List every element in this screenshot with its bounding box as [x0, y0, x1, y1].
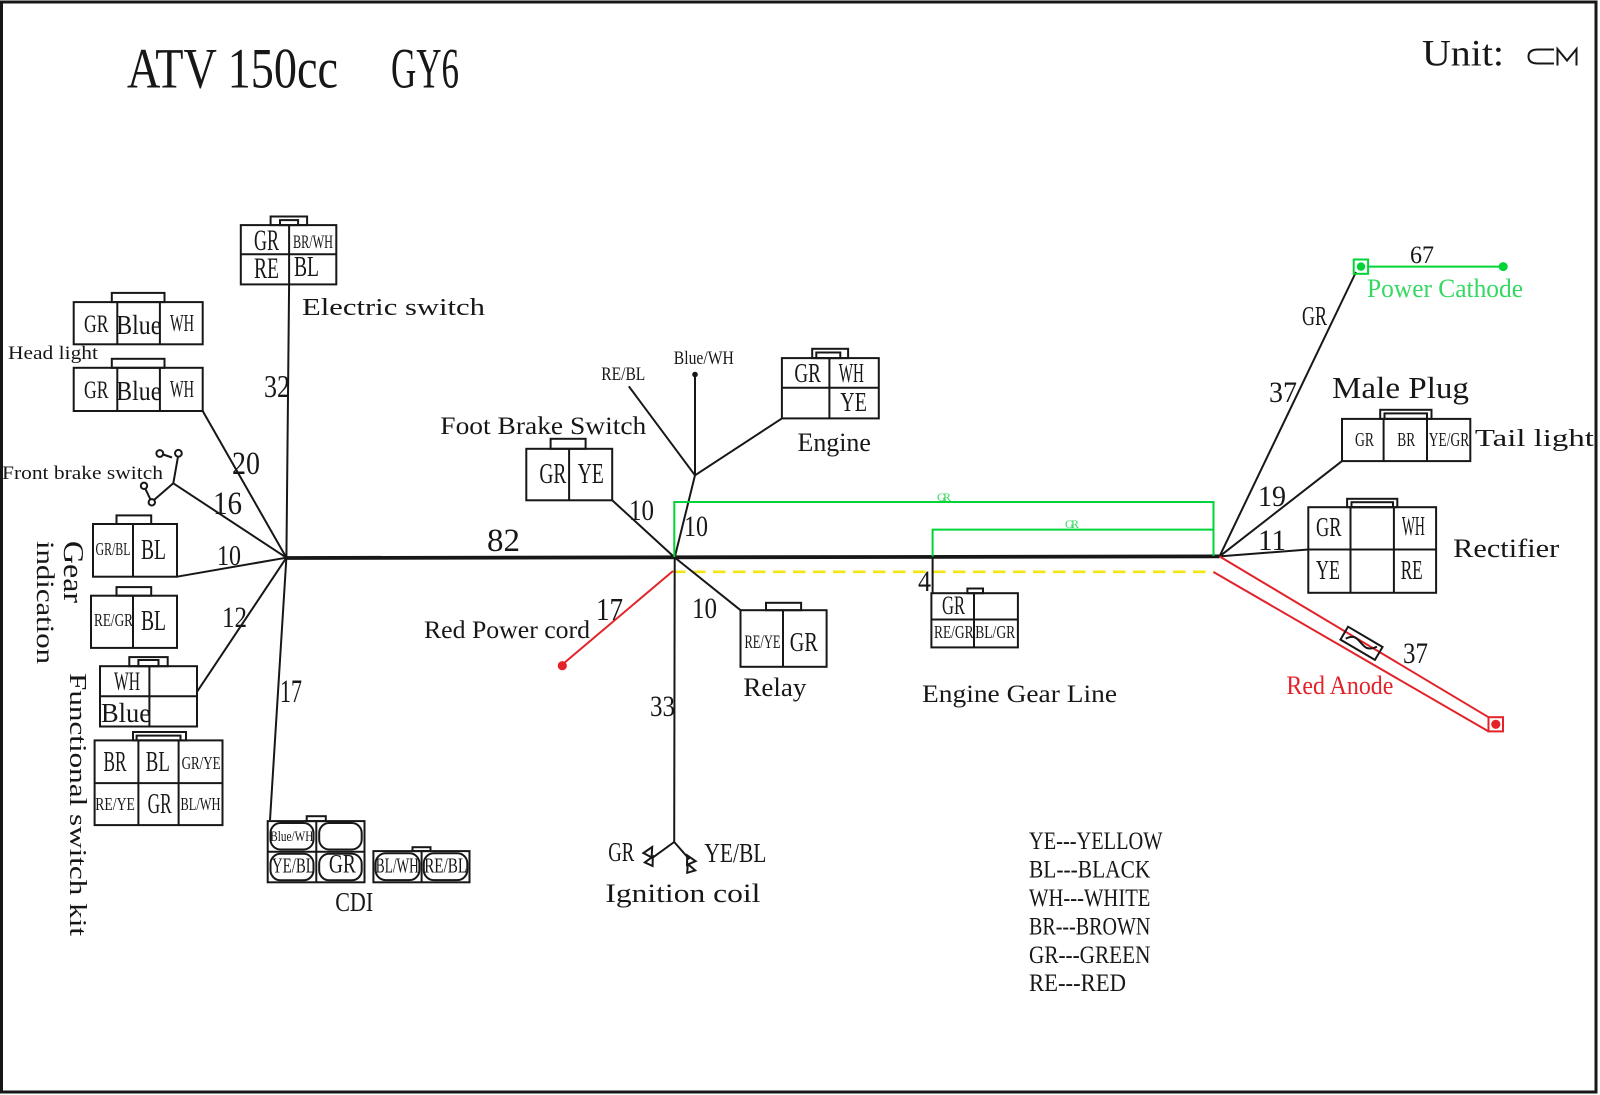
svg-text:Rectifier: Rectifier: [1453, 534, 1559, 563]
label Ignition coil: [605, 879, 760, 908]
svg-text:GR: GR: [1355, 429, 1374, 451]
svg-text:WH: WH: [114, 667, 140, 696]
svg-text:20: 20: [232, 446, 260, 482]
svg-text:RE/GR: RE/GR: [94, 610, 133, 630]
label 10: [692, 592, 717, 625]
svg-text:Red Power cord: Red Power cord: [424, 617, 591, 644]
svg-text:RE: RE: [1401, 555, 1423, 585]
green wire GR upper: [674, 502, 1213, 557]
svg-text:Electric switch: Electric switch: [302, 295, 485, 321]
legend RE---RED: [1029, 970, 1126, 997]
label 10: [217, 540, 241, 572]
label 32: [264, 368, 290, 404]
svg-text:YE---YELLOW: YE---YELLOW: [1029, 828, 1163, 855]
label Blue/WH: [674, 348, 734, 369]
svg-text:GR: GR: [790, 627, 818, 657]
svg-text:GR/BL: GR/BL: [96, 539, 131, 559]
svg-text:37: 37: [1269, 376, 1297, 409]
svg-text:YE/BL: YE/BL: [704, 838, 766, 868]
wire RE/BL branch: [629, 386, 695, 475]
label Electric switch: [302, 295, 485, 321]
label 17: [596, 591, 623, 627]
legend BR---BROWN: [1029, 913, 1150, 940]
svg-text:BL: BL: [141, 535, 166, 566]
wire 4 (trunk to engine gear line): [932, 558, 934, 594]
red power cord wire with end dot: [558, 571, 673, 670]
label GR (green, upper wire): [937, 490, 951, 504]
svg-text:17: 17: [280, 674, 302, 710]
label Red Power cord: [424, 617, 591, 644]
wire 12 (functional switch WH/Blue to left hub): [197, 558, 286, 692]
svg-text:GR/YE: GR/YE: [182, 753, 221, 773]
svg-text:37: 37: [1403, 637, 1428, 670]
svg-text:12: 12: [222, 601, 247, 634]
label Rectifier: [1453, 534, 1559, 563]
label 82: [487, 523, 520, 559]
svg-text:RE: RE: [254, 252, 279, 285]
svg-text:RE/BL: RE/BL: [601, 364, 645, 385]
connector: engine gear line (GR,RE/GR,BL/GR): [931, 589, 1018, 648]
svg-text:GR: GR: [148, 789, 172, 820]
wire 11 (right hub to rectifier): [1220, 550, 1309, 557]
svg-text:BL---BLACK: BL---BLACK: [1029, 857, 1150, 884]
svg-text:BL/WH: BL/WH: [181, 794, 221, 814]
svg-text:11: 11: [1258, 524, 1286, 557]
connector: head light lower (GR,Blue,WH): [74, 359, 203, 411]
ignition coil fork with arrow terminals: [643, 842, 695, 873]
svg-text:82: 82: [487, 523, 520, 559]
wire 10 (gear indication to left hub): [177, 558, 286, 577]
svg-text:Engine Gear Line: Engine Gear Line: [922, 681, 1117, 708]
fuse/breaker symbol on red anode wire: [1340, 627, 1382, 660]
svg-text:33: 33: [650, 690, 675, 723]
svg-text:ATV 150cc: ATV 150cc: [127, 38, 338, 101]
wire 10 (middle hub to relay): [675, 558, 741, 611]
svg-text:19: 19: [1258, 480, 1286, 513]
connector: relay (RE/YE,GR): [741, 603, 827, 667]
svg-text:RE/BL: RE/BL: [424, 854, 467, 878]
label Male Plug: [1332, 370, 1469, 405]
svg-text:10: 10: [692, 592, 717, 625]
label 67: [1410, 242, 1434, 269]
svg-text:WH: WH: [839, 358, 864, 388]
svg-text:GR: GR: [1316, 512, 1342, 542]
svg-text:GR: GR: [794, 358, 821, 388]
label GR: [608, 837, 634, 867]
svg-text:Ignition coil: Ignition coil: [605, 879, 760, 908]
svg-text:RE/YE: RE/YE: [95, 794, 135, 814]
svg-text:BR---BROWN: BR---BROWN: [1029, 913, 1150, 940]
svg-text:Front brake switch: Front brake switch: [2, 463, 164, 484]
svg-text:RE---RED: RE---RED: [1029, 970, 1126, 997]
connector: gear indication 1 (GR/BL,BL): [93, 515, 177, 576]
legend WH---WHITE: [1029, 885, 1150, 912]
label Relay: [743, 673, 806, 702]
connector: head light upper (GR,Blue,WH): [74, 293, 203, 344]
svg-text:Red Anode: Red Anode: [1286, 671, 1393, 700]
svg-text:WH: WH: [1402, 511, 1425, 541]
svg-text:Relay: Relay: [743, 673, 806, 702]
label 11: [1258, 524, 1286, 557]
svg-text:Blue: Blue: [101, 698, 151, 728]
svg-text:10: 10: [217, 540, 241, 572]
label Functional switch kit (rotated): [64, 673, 90, 936]
svg-text:4: 4: [918, 565, 931, 598]
label Foot Brake Switch: [440, 413, 647, 440]
svg-text:YE: YE: [1316, 555, 1340, 585]
svg-text:32: 32: [264, 368, 290, 404]
label 19: [1258, 480, 1286, 513]
svg-text:17: 17: [596, 591, 623, 627]
label Tail light: [1475, 426, 1594, 452]
connector: gear indication 2 (RE/GR,BL): [91, 587, 177, 648]
connector: Electric switch (GR,BR/WH,RE,BL): [241, 217, 336, 286]
svg-text:WH: WH: [170, 311, 194, 337]
svg-text:RE/YE: RE/YE: [745, 632, 781, 653]
connector: tail light (GR,BR,YE/GR): [1342, 410, 1470, 461]
wire 10 (branch node to middle hub): [675, 475, 695, 557]
svg-text:GR---GREEN: GR---GREEN: [1029, 942, 1150, 969]
label 16: [213, 486, 242, 522]
power cathode terminal (green square, dot, wire 67, end dot): [1354, 260, 1508, 274]
svg-text:BL: BL: [146, 747, 170, 778]
svg-text:Unit:: Unit:: [1422, 34, 1504, 75]
label GR (green, lower wire): [1065, 517, 1079, 531]
connector: engine (GR,WH,YE): [782, 349, 879, 419]
svg-text:GR: GR: [1302, 301, 1327, 331]
svg-text:BL: BL: [141, 606, 166, 637]
wire 10 (foot brake switch to middle hub): [612, 500, 675, 557]
label Engine Gear Line: [922, 681, 1117, 708]
svg-text:GR: GR: [608, 837, 634, 867]
connector: rectifier (GR,WH,YE,RE): [1308, 499, 1436, 593]
svg-text:YE/BL: YE/BL: [272, 854, 315, 878]
svg-text:10: 10: [684, 510, 708, 543]
label Power Cathode (green): [1367, 274, 1523, 303]
svg-text:GR: GR: [539, 459, 566, 490]
svg-text:BR: BR: [104, 747, 127, 778]
svg-text:GR: GR: [942, 591, 965, 620]
svg-text:BR/WH: BR/WH: [293, 232, 333, 253]
connector: CDI 2-pin (BL/WH,RE/BL): [373, 847, 469, 882]
svg-text:indication: indication: [31, 541, 58, 665]
svg-text:GY6: GY6: [391, 38, 459, 101]
svg-text:Blue/WH: Blue/WH: [674, 348, 734, 369]
label 12: [222, 601, 247, 634]
wire engine branch: [695, 418, 782, 475]
svg-text:BL/WH: BL/WH: [376, 854, 419, 878]
label YE/BL: [704, 838, 766, 868]
label Front brake switch: [2, 463, 164, 484]
svg-text:Functional switch kit: Functional switch kit: [64, 673, 90, 936]
svg-text:GR: GR: [1065, 517, 1079, 531]
red anode terminal (red square with dot): [1489, 717, 1504, 731]
legend GR---GREEN: [1029, 942, 1150, 969]
svg-text:Head light: Head light: [8, 343, 99, 364]
label 10: [629, 494, 654, 527]
main trunk wire 82: [286, 556, 1219, 558]
wire 33 (middle hub to ignition coil): [673, 558, 676, 843]
wire 17 (left hub to CDI): [270, 558, 286, 820]
connector: functional switch kit 6-pin (BR,BL,GR/YE,RE/YE,GR,BL/WH): [95, 732, 223, 825]
svg-text:GR: GR: [84, 311, 109, 338]
label GR: [1302, 301, 1327, 331]
svg-text:Blue: Blue: [116, 310, 161, 340]
svg-text:16: 16: [213, 486, 242, 522]
wire Blue/WH branch with end dot: [692, 372, 698, 476]
svg-text:67: 67: [1410, 242, 1434, 269]
svg-text:Engine: Engine: [798, 428, 871, 457]
yellow dashed wire: [673, 570, 1214, 573]
label 17: [280, 674, 302, 710]
wire 16 (front brake switch to left hub): [173, 483, 286, 557]
label Engine: [798, 428, 871, 457]
wire 32 (electric switch to left hub): [286, 284, 289, 557]
svg-text:BL: BL: [294, 252, 319, 283]
svg-text:YE: YE: [578, 459, 604, 490]
svg-text:Blue: Blue: [116, 376, 161, 406]
svg-text:CDI: CDI: [335, 887, 373, 917]
wire 19 (right hub to tail light): [1220, 461, 1343, 556]
label 33: [650, 690, 675, 723]
svg-text:Gear: Gear: [57, 541, 89, 603]
svg-text:Male Plug: Male Plug: [1332, 370, 1469, 405]
svg-text:Blue/WH: Blue/WH: [270, 829, 313, 845]
svg-text:Power Cathode: Power Cathode: [1367, 274, 1523, 303]
front brake switch symbol: [141, 450, 182, 506]
legend YE---YELLOW: [1029, 828, 1163, 855]
red anode wire (double line): [1214, 556, 1489, 731]
svg-text:WH---WHITE: WH---WHITE: [1029, 885, 1150, 912]
green wire GR lower: [933, 530, 1214, 557]
label 37: [1403, 637, 1428, 670]
svg-text:YE: YE: [840, 387, 867, 417]
connector: functional switch WH/Blue: [100, 657, 197, 728]
label 37: [1269, 376, 1297, 409]
svg-text:BL/GR: BL/GR: [975, 622, 1015, 642]
label CDI: [335, 887, 373, 917]
svg-text:YE/GR: YE/GR: [1429, 429, 1470, 451]
svg-text:GR: GR: [937, 490, 951, 504]
title ATV 150cc GY6: [127, 38, 459, 101]
label Unit: cm: [1422, 34, 1577, 75]
svg-text:GR: GR: [84, 377, 109, 404]
label 20: [232, 446, 260, 482]
svg-text:10: 10: [629, 494, 654, 527]
label RE/BL: [601, 364, 645, 385]
wire 20 (head light to left hub): [203, 411, 287, 558]
svg-text:Tail light: Tail light: [1475, 426, 1594, 452]
svg-text:Foot Brake Switch: Foot Brake Switch: [440, 413, 647, 440]
svg-text:GR: GR: [329, 850, 356, 879]
svg-text:WH: WH: [170, 377, 194, 403]
label Head light: [8, 343, 99, 364]
legend BL---BLACK: [1029, 857, 1150, 884]
svg-text:RE/GR: RE/GR: [934, 622, 974, 642]
svg-text:BR: BR: [1397, 429, 1415, 451]
label Red Anode (red): [1286, 671, 1393, 700]
connector: foot brake switch (GR,YE): [526, 439, 612, 501]
label 4: [918, 565, 931, 598]
wire GR 37 (right hub to power cathode): [1220, 272, 1357, 556]
label Gear indication (rotated): [31, 541, 89, 665]
connector: CDI 4-pin (Blue/WH,YE/BL,GR): [268, 816, 365, 882]
label 10: [684, 510, 708, 543]
